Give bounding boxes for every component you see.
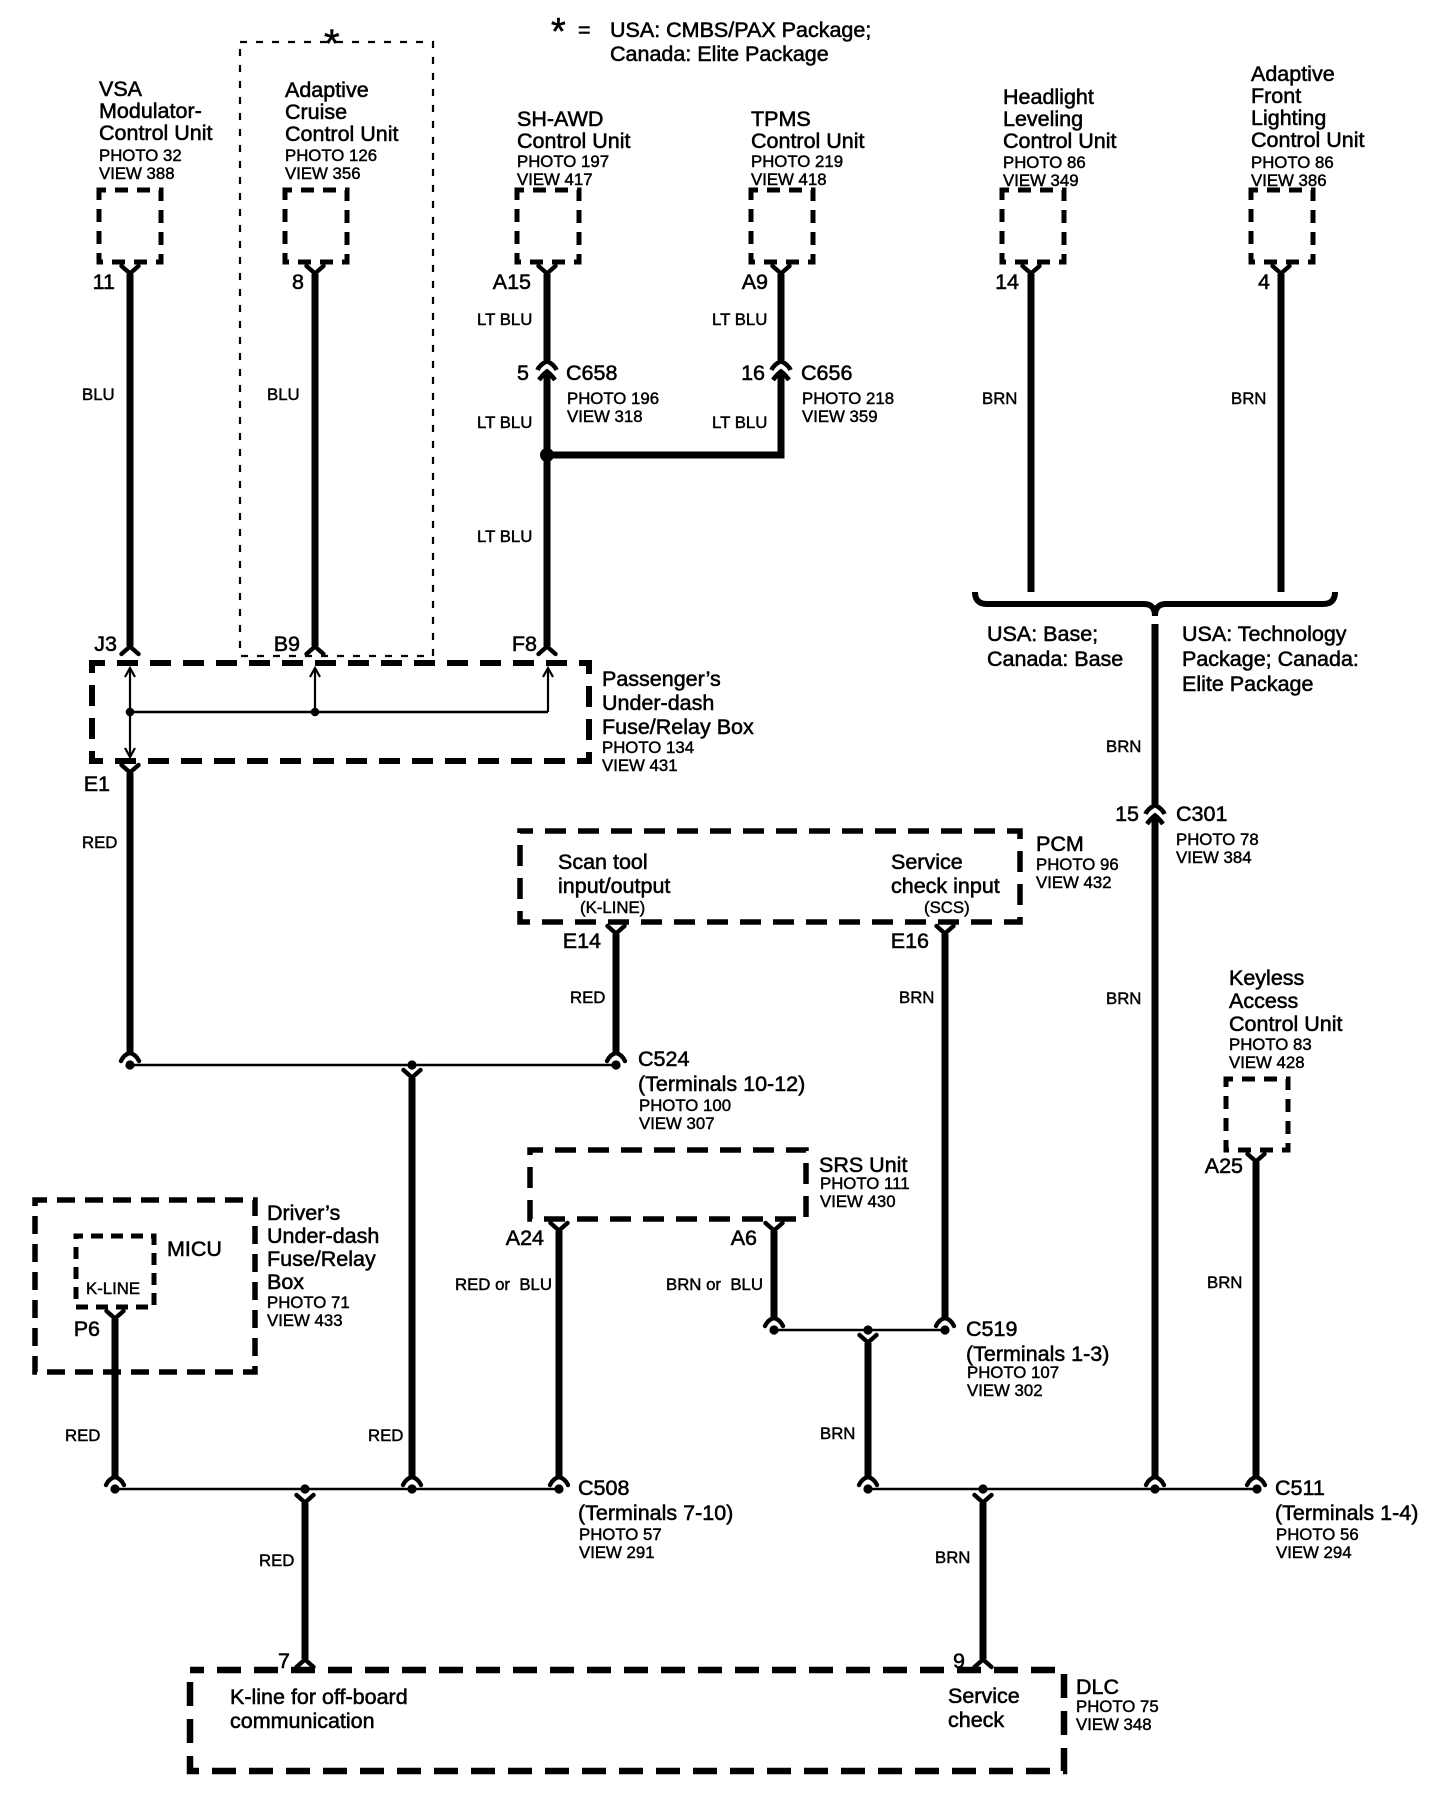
svg-text:BRN: BRN <box>899 988 934 1007</box>
wire BRN from C511 to DLC pin 9 <box>935 1495 992 1673</box>
connector C519 bus <box>769 1325 949 1334</box>
Adaptive Front Lighting Control Unit box <box>1251 190 1313 262</box>
wire BRN from E16 to C519 <box>899 934 954 1326</box>
wire RED or BLU from A24 to C508 <box>455 1231 568 1485</box>
svg-text:Passenger’s: Passenger’s <box>602 667 721 691</box>
svg-text:PHOTO 32: PHOTO 32 <box>99 146 182 165</box>
connector C656 pin 16 <box>741 361 894 426</box>
svg-text:VIEW 359: VIEW 359 <box>802 407 878 426</box>
svg-text:BLU: BLU <box>267 385 300 404</box>
Adaptive Cruise Control Unit label <box>285 78 399 183</box>
svg-text:PHOTO 219: PHOTO 219 <box>751 152 843 171</box>
option label USA Technology Package <box>1182 622 1359 696</box>
svg-text:BRN: BRN <box>1207 1273 1242 1292</box>
pin 14 <box>995 266 1039 294</box>
svg-text:PHOTO 134: PHOTO 134 <box>602 738 694 757</box>
pin A9 <box>742 266 790 294</box>
svg-text:check: check <box>948 1708 1004 1732</box>
svg-text:VIEW 417: VIEW 417 <box>517 170 593 189</box>
svg-text:(Terminals 1-4): (Terminals 1-4) <box>1275 1501 1418 1525</box>
svg-text:K-LINE: K-LINE <box>86 1279 140 1298</box>
svg-text:MICU: MICU <box>167 1237 222 1261</box>
Headlight Leveling Control Unit box <box>1002 190 1064 262</box>
SRS Unit box <box>530 1150 806 1219</box>
svg-text:PHOTO 126: PHOTO 126 <box>285 146 377 165</box>
svg-text:Fuse/Relay Box: Fuse/Relay Box <box>602 715 754 739</box>
svg-text:A25: A25 <box>1205 1154 1243 1178</box>
brace joining headlight wires <box>975 592 1335 616</box>
svg-text:Fuse/Relay: Fuse/Relay <box>267 1247 376 1271</box>
svg-text:PHOTO 111: PHOTO 111 <box>820 1174 910 1193</box>
svg-text:Cruise: Cruise <box>285 100 347 124</box>
svg-text:Control Unit: Control Unit <box>517 129 631 153</box>
svg-text:VIEW 386: VIEW 386 <box>1251 171 1327 190</box>
svg-text:VIEW 431: VIEW 431 <box>602 756 678 775</box>
connector C658 pin 5 <box>517 361 659 426</box>
Keyless Access Control Unit box <box>1226 1079 1288 1150</box>
svg-text:PHOTO 96: PHOTO 96 <box>1036 855 1119 874</box>
svg-text:PHOTO 71: PHOTO 71 <box>267 1293 350 1312</box>
svg-text:DLC: DLC <box>1076 1675 1119 1699</box>
svg-text:5: 5 <box>517 361 529 385</box>
PCM label <box>1036 832 1119 892</box>
Passenger's Under-dash Fuse/Relay Box <box>92 663 589 761</box>
DLC label <box>1076 1675 1159 1734</box>
wire BLU from VSA pin 11 to J3 <box>82 274 139 654</box>
svg-text:(Terminals 7-10): (Terminals 7-10) <box>578 1501 733 1525</box>
svg-text:TPMS: TPMS <box>751 107 811 131</box>
svg-text:7: 7 <box>278 1649 290 1673</box>
pin E16 <box>891 926 954 953</box>
PCM service check input label <box>891 850 1000 917</box>
svg-text:C511: C511 <box>1275 1476 1325 1500</box>
svg-text:PHOTO 56: PHOTO 56 <box>1276 1525 1359 1544</box>
pin P6 <box>74 1311 124 1341</box>
svg-text:E1: E1 <box>84 772 110 796</box>
svg-text:Service: Service <box>891 850 963 874</box>
junction node (SH-AWD/TPMS) <box>540 448 554 462</box>
wire BRN from pin 4 to brace <box>1231 274 1281 592</box>
SRS Unit label <box>819 1153 910 1211</box>
svg-text:Service: Service <box>948 1684 1020 1708</box>
Adaptive Cruise Control Unit box <box>285 190 347 262</box>
svg-text:PHOTO 57: PHOTO 57 <box>579 1525 662 1544</box>
svg-text:VIEW 428: VIEW 428 <box>1229 1053 1305 1072</box>
svg-text:PHOTO 196: PHOTO 196 <box>567 389 659 408</box>
wire LT BLU from junction to F8 <box>477 455 556 654</box>
connector C301 pin 15 <box>1115 802 1259 867</box>
TPMS Control Unit box <box>751 190 813 262</box>
svg-text:Box: Box <box>267 1270 304 1294</box>
node F8 <box>512 632 537 656</box>
svg-text:VIEW 291: VIEW 291 <box>579 1543 655 1562</box>
svg-text:VIEW 388: VIEW 388 <box>99 164 175 183</box>
wire BRN from C301 to C511 <box>1106 816 1164 1485</box>
SH-AWD Control Unit label <box>517 107 631 189</box>
svg-text:PHOTO 107: PHOTO 107 <box>967 1363 1059 1382</box>
svg-text:communication: communication <box>230 1709 375 1733</box>
wire BRN from C519 to C511 <box>820 1335 877 1485</box>
svg-text:C658: C658 <box>566 361 617 385</box>
pin A6 <box>731 1223 783 1250</box>
VSA Modulator-Control Unit label <box>99 77 213 183</box>
svg-text:*: * <box>324 22 340 66</box>
fuse box internal bus <box>125 668 553 757</box>
svg-text:B9: B9 <box>274 632 300 656</box>
svg-text:BLU: BLU <box>82 385 115 404</box>
node J3 <box>94 632 117 656</box>
svg-text:Keyless: Keyless <box>1229 966 1304 990</box>
MICU label <box>167 1237 222 1261</box>
connector C508 bus <box>110 1484 563 1493</box>
svg-text:=: = <box>578 18 591 42</box>
wire BRN from pin 14 to brace <box>982 274 1031 592</box>
svg-text:Adaptive: Adaptive <box>1251 62 1335 86</box>
svg-text:BRN: BRN <box>982 389 1017 408</box>
svg-text:VIEW 302: VIEW 302 <box>967 1381 1043 1400</box>
svg-text:Control Unit: Control Unit <box>99 121 213 145</box>
wire LT BLU from A15 to connector C658 <box>477 274 547 360</box>
svg-text:Driver’s: Driver’s <box>267 1201 340 1225</box>
svg-text:LT BLU: LT BLU <box>477 527 532 546</box>
svg-text:LT BLU: LT BLU <box>477 310 532 329</box>
svg-text:LT BLU: LT BLU <box>712 310 767 329</box>
option box (CMBS/PAX package, dashed outline) with asterisk <box>240 22 433 656</box>
pin 4 <box>1258 266 1289 294</box>
Keyless Access Control Unit label <box>1229 966 1343 1072</box>
svg-text:Headlight: Headlight <box>1003 85 1094 109</box>
svg-text:4: 4 <box>1258 270 1270 294</box>
wire RED from E1 to C524 <box>82 773 139 1061</box>
svg-text:PHOTO 78: PHOTO 78 <box>1176 830 1259 849</box>
pin 8 <box>292 266 323 294</box>
svg-text:VIEW 384: VIEW 384 <box>1176 848 1252 867</box>
wire LT BLU from C658 to junction <box>477 372 547 455</box>
DLC box <box>190 1670 1064 1771</box>
svg-text:LT BLU: LT BLU <box>712 413 767 432</box>
MICU (K-LINE) box <box>76 1236 154 1307</box>
svg-text:PHOTO 100: PHOTO 100 <box>639 1096 731 1115</box>
svg-text:VIEW 430: VIEW 430 <box>820 1192 896 1211</box>
Passenger's fuse box label <box>602 667 754 775</box>
node B9 <box>274 632 300 656</box>
svg-text:VSA: VSA <box>99 77 143 101</box>
svg-text:PCM: PCM <box>1036 832 1084 856</box>
wire BRN from brace to connector C301 <box>1106 624 1155 804</box>
pin E14 <box>563 926 625 953</box>
svg-text:11: 11 <box>93 270 115 294</box>
svg-text:Canada: Elite Package: Canada: Elite Package <box>610 42 829 66</box>
pin A15 <box>493 266 556 294</box>
svg-text:P6: P6 <box>74 1317 100 1341</box>
svg-text:LT BLU: LT BLU <box>477 413 532 432</box>
TPMS Control Unit label <box>751 107 865 189</box>
svg-text:USA: Technology: USA: Technology <box>1182 622 1347 646</box>
svg-text:C519: C519 <box>966 1317 1017 1341</box>
svg-text:RED: RED <box>259 1551 294 1570</box>
svg-text:K-line for off-board: K-line for off-board <box>230 1685 408 1709</box>
option label USA Base <box>987 622 1123 671</box>
wire BLU from ACC pin 8 to B9 <box>267 274 324 654</box>
PCM box <box>520 831 1020 922</box>
PCM scan tool input/output label <box>558 850 670 917</box>
connector C524 label <box>638 1047 805 1133</box>
svg-text:F8: F8 <box>512 632 537 656</box>
connector C511 bus <box>863 1484 1261 1493</box>
connector C511 label <box>1275 1476 1418 1562</box>
svg-text:J3: J3 <box>94 632 117 656</box>
wire BRN from A25 to C511 <box>1207 1162 1265 1485</box>
svg-text:15: 15 <box>1115 802 1139 826</box>
wire BRN or BLU from A6 to C519 <box>666 1231 783 1326</box>
svg-text:PHOTO 218: PHOTO 218 <box>802 389 894 408</box>
svg-text:RED or BLU: RED or BLU <box>455 1275 552 1294</box>
wire RED from P6 to C508 <box>65 1319 124 1485</box>
svg-text:RED: RED <box>82 833 117 852</box>
svg-text:Front: Front <box>1251 84 1301 108</box>
svg-text:VIEW 432: VIEW 432 <box>1036 873 1112 892</box>
svg-text:VIEW 318: VIEW 318 <box>567 407 643 426</box>
svg-text:E16: E16 <box>891 929 929 953</box>
svg-text:Control Unit: Control Unit <box>751 129 865 153</box>
svg-text:VIEW 356: VIEW 356 <box>285 164 361 183</box>
connector C519 label <box>966 1317 1109 1400</box>
svg-text:VIEW 418: VIEW 418 <box>751 170 827 189</box>
svg-text:PHOTO 86: PHOTO 86 <box>1251 153 1334 172</box>
svg-text:A6: A6 <box>731 1226 757 1250</box>
svg-text:C656: C656 <box>801 361 852 385</box>
svg-text:Access: Access <box>1229 989 1298 1013</box>
svg-text:Adaptive: Adaptive <box>285 78 369 102</box>
svg-text:VIEW 433: VIEW 433 <box>267 1311 343 1330</box>
Driver's Under-dash Fuse/Relay Box <box>35 1200 255 1372</box>
svg-text:C301: C301 <box>1176 802 1227 826</box>
note: asterisk legend <box>551 11 871 66</box>
svg-text:(Terminals 10-12): (Terminals 10-12) <box>638 1072 805 1096</box>
svg-text:VIEW 307: VIEW 307 <box>639 1114 715 1133</box>
Adaptive Front Lighting Control Unit label <box>1251 62 1365 190</box>
wire LT BLU from C656 to junction <box>553 372 781 455</box>
svg-text:BRN: BRN <box>1106 737 1141 756</box>
wire RED from C524 to C508 <box>368 1070 421 1485</box>
svg-text:check input: check input <box>891 874 1000 898</box>
connector C508 label <box>578 1476 733 1562</box>
pin A25 <box>1205 1154 1265 1178</box>
K-LINE label <box>86 1279 140 1298</box>
svg-text:16: 16 <box>741 361 765 385</box>
svg-text:RED: RED <box>65 1426 100 1445</box>
pin A24 <box>506 1223 568 1250</box>
SH-AWD Control Unit box <box>517 190 579 262</box>
svg-text:A24: A24 <box>506 1226 544 1250</box>
Headlight Leveling Control Unit label <box>1003 85 1117 190</box>
svg-text:(K-LINE): (K-LINE) <box>580 898 645 917</box>
svg-text:VIEW 349: VIEW 349 <box>1003 171 1079 190</box>
svg-text:Leveling: Leveling <box>1003 107 1083 131</box>
svg-text:PHOTO 75: PHOTO 75 <box>1076 1697 1159 1716</box>
svg-text:USA: CMBS/PAX Package;: USA: CMBS/PAX Package; <box>610 18 871 42</box>
svg-text:Package; Canada:: Package; Canada: <box>1182 647 1359 671</box>
svg-text:E14: E14 <box>563 929 601 953</box>
svg-text:Elite Package: Elite Package <box>1182 672 1313 696</box>
svg-text:PHOTO 86: PHOTO 86 <box>1003 153 1086 172</box>
svg-text:PHOTO 197: PHOTO 197 <box>517 152 609 171</box>
connector C524 bus <box>125 1060 620 1069</box>
svg-text:RED: RED <box>368 1426 403 1445</box>
svg-text:Lighting: Lighting <box>1251 106 1326 130</box>
svg-text:Under-dash: Under-dash <box>602 691 714 715</box>
svg-text:14: 14 <box>995 270 1019 294</box>
svg-text:USA: Base;: USA: Base; <box>987 622 1098 646</box>
svg-text:VIEW 348: VIEW 348 <box>1076 1715 1152 1734</box>
svg-text:8: 8 <box>292 270 304 294</box>
svg-text:A9: A9 <box>742 270 768 294</box>
svg-text:BRN or BLU: BRN or BLU <box>666 1275 763 1294</box>
svg-text:VIEW 294: VIEW 294 <box>1276 1543 1352 1562</box>
DLC service check label <box>948 1684 1020 1732</box>
wire LT BLU from A9 to connector C656 <box>712 274 781 360</box>
svg-text:*: * <box>551 11 566 53</box>
svg-text:(SCS): (SCS) <box>924 898 970 917</box>
pin 11 <box>93 266 139 294</box>
svg-text:C524: C524 <box>638 1047 689 1071</box>
svg-text:C508: C508 <box>578 1476 629 1500</box>
svg-text:BRN: BRN <box>1106 989 1141 1008</box>
svg-text:A15: A15 <box>493 270 531 294</box>
svg-text:Control Unit: Control Unit <box>1003 129 1117 153</box>
DLC K-line label <box>230 1685 408 1733</box>
svg-text:BRN: BRN <box>820 1424 855 1443</box>
svg-text:Canada: Base: Canada: Base <box>987 647 1123 671</box>
svg-text:Scan tool: Scan tool <box>558 850 648 874</box>
svg-text:Modulator-: Modulator- <box>99 99 202 123</box>
svg-text:BRN: BRN <box>935 1548 970 1567</box>
svg-text:Under-dash: Under-dash <box>267 1224 379 1248</box>
svg-text:RED: RED <box>570 988 605 1007</box>
wire RED from C508 to DLC pin 7 <box>259 1495 314 1673</box>
svg-text:Control Unit: Control Unit <box>1251 128 1365 152</box>
svg-text:Control Unit: Control Unit <box>285 122 399 146</box>
pin E1 <box>84 765 139 796</box>
svg-text:Control Unit: Control Unit <box>1229 1012 1343 1036</box>
wire RED from E14 to C524 <box>570 934 625 1061</box>
svg-text:PHOTO 83: PHOTO 83 <box>1229 1035 1312 1054</box>
svg-text:SH-AWD: SH-AWD <box>517 107 603 131</box>
svg-text:BRN: BRN <box>1231 389 1266 408</box>
Driver's fuse box label <box>267 1201 379 1330</box>
VSA Modulator-Control Unit box <box>99 190 161 262</box>
svg-text:input/output: input/output <box>558 874 670 898</box>
